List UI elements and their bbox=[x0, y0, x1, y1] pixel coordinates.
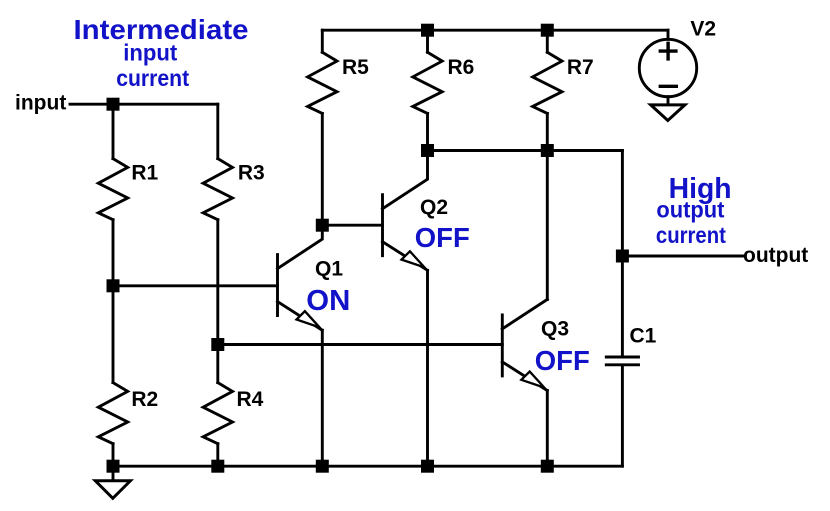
svg-text:Q2: Q2 bbox=[420, 196, 448, 219]
wire Q2 collector to output column bbox=[428, 149, 623, 152]
svg-text:OFF: OFF bbox=[535, 345, 590, 376]
junction R3/R4/Q3 base bbox=[211, 338, 224, 351]
junction rail R4 bbox=[211, 460, 224, 473]
junction R7 top rail bbox=[541, 24, 554, 37]
wire top supply rail bbox=[322, 29, 668, 32]
svg-text:R1: R1 bbox=[131, 161, 158, 184]
svg-text:input: input bbox=[15, 92, 66, 115]
wire Q3 emitter to ground rail bbox=[546, 391, 549, 467]
wire R1 top bbox=[112, 104, 115, 158]
wire output lead bbox=[622, 255, 743, 258]
svg-text:R7: R7 bbox=[567, 56, 594, 79]
junction rail Q1 emitter bbox=[316, 460, 329, 473]
junction Q2 collector/R6 bbox=[421, 144, 434, 157]
wire Q1 base line bbox=[113, 284, 278, 287]
svg-text:V2: V2 bbox=[690, 18, 716, 41]
svg-text:R5: R5 bbox=[342, 56, 369, 79]
wire C1 bottom to ground rail bbox=[621, 366, 624, 466]
junction R6 top rail bbox=[421, 24, 434, 37]
svg-text:R2: R2 bbox=[131, 388, 158, 411]
voltage source V2 bbox=[639, 18, 716, 97]
svg-text:output: output bbox=[743, 244, 808, 267]
wire input lead bbox=[70, 103, 218, 106]
transistor Q3 bbox=[502, 299, 569, 390]
wire Q2 emitter to ground rail bbox=[426, 270, 429, 466]
wire bottom ground rail bbox=[113, 465, 622, 468]
ground below V2 bbox=[651, 105, 685, 121]
wire output column upper bbox=[621, 151, 624, 257]
wire R7 bottom to Q3 collector bbox=[546, 113, 549, 299]
svg-text:R4: R4 bbox=[237, 388, 264, 411]
wire R2 top bbox=[112, 286, 115, 383]
junction input/R1 bbox=[107, 98, 120, 111]
resistor R2 bbox=[98, 383, 158, 444]
wire R6 bottom bbox=[426, 113, 429, 150]
wire R7 top bbox=[546, 30, 549, 52]
capacitor C1 bbox=[606, 325, 656, 365]
resistor R3 bbox=[203, 159, 265, 220]
svg-text:C1: C1 bbox=[630, 325, 657, 348]
junction rail R2 bbox=[107, 460, 120, 473]
wire V2 bottom stub bbox=[667, 97, 670, 105]
wire Q3 base line bbox=[218, 343, 503, 346]
resistor R7 bbox=[533, 52, 594, 113]
wire R4 top bbox=[216, 345, 219, 383]
wire R3 top bbox=[216, 104, 219, 158]
wire R5 top bbox=[321, 30, 324, 52]
transistor Q2 bbox=[383, 151, 449, 271]
svg-text:ON: ON bbox=[306, 285, 350, 317]
transistor Q1 bbox=[278, 225, 344, 330]
junction R5/Q1 collector/Q2 base bbox=[316, 219, 329, 232]
resistor R5 bbox=[308, 52, 370, 113]
junction R7/output line bbox=[541, 144, 554, 157]
resistor R1 bbox=[98, 159, 158, 220]
junction R1/R2/Q1 base bbox=[107, 279, 120, 292]
svg-text:input: input bbox=[123, 40, 177, 66]
svg-text:Q1: Q1 bbox=[315, 258, 343, 281]
svg-text:output: output bbox=[656, 196, 724, 222]
svg-text:OFF: OFF bbox=[415, 222, 470, 253]
wire R5 bottom node to Q2 base bbox=[322, 224, 382, 227]
svg-text:R6: R6 bbox=[448, 56, 475, 79]
wire ground stub bottom left bbox=[112, 466, 115, 481]
wire R4 bottom bbox=[216, 444, 219, 467]
svg-text:current: current bbox=[656, 222, 726, 248]
wire Q1 emitter to ground rail bbox=[321, 330, 324, 466]
resistor R4 bbox=[203, 383, 264, 444]
wire R6 top bbox=[426, 30, 429, 52]
svg-text:Q3: Q3 bbox=[541, 318, 569, 341]
ground bottom left bbox=[95, 481, 130, 499]
junction rail Q3 emitter bbox=[541, 460, 554, 473]
wire R5 bottom bbox=[321, 113, 324, 225]
wire R3 bottom bbox=[216, 220, 219, 345]
wire output node to C1 top plate bbox=[621, 256, 624, 356]
resistor R6 bbox=[413, 52, 475, 113]
wire R1 bottom bbox=[112, 220, 115, 286]
junction output node bbox=[616, 250, 629, 263]
wire R2 bottom bbox=[112, 444, 115, 467]
junction rail Q2 emitter bbox=[421, 460, 434, 473]
svg-text:R3: R3 bbox=[238, 161, 265, 184]
svg-text:current: current bbox=[116, 65, 189, 91]
